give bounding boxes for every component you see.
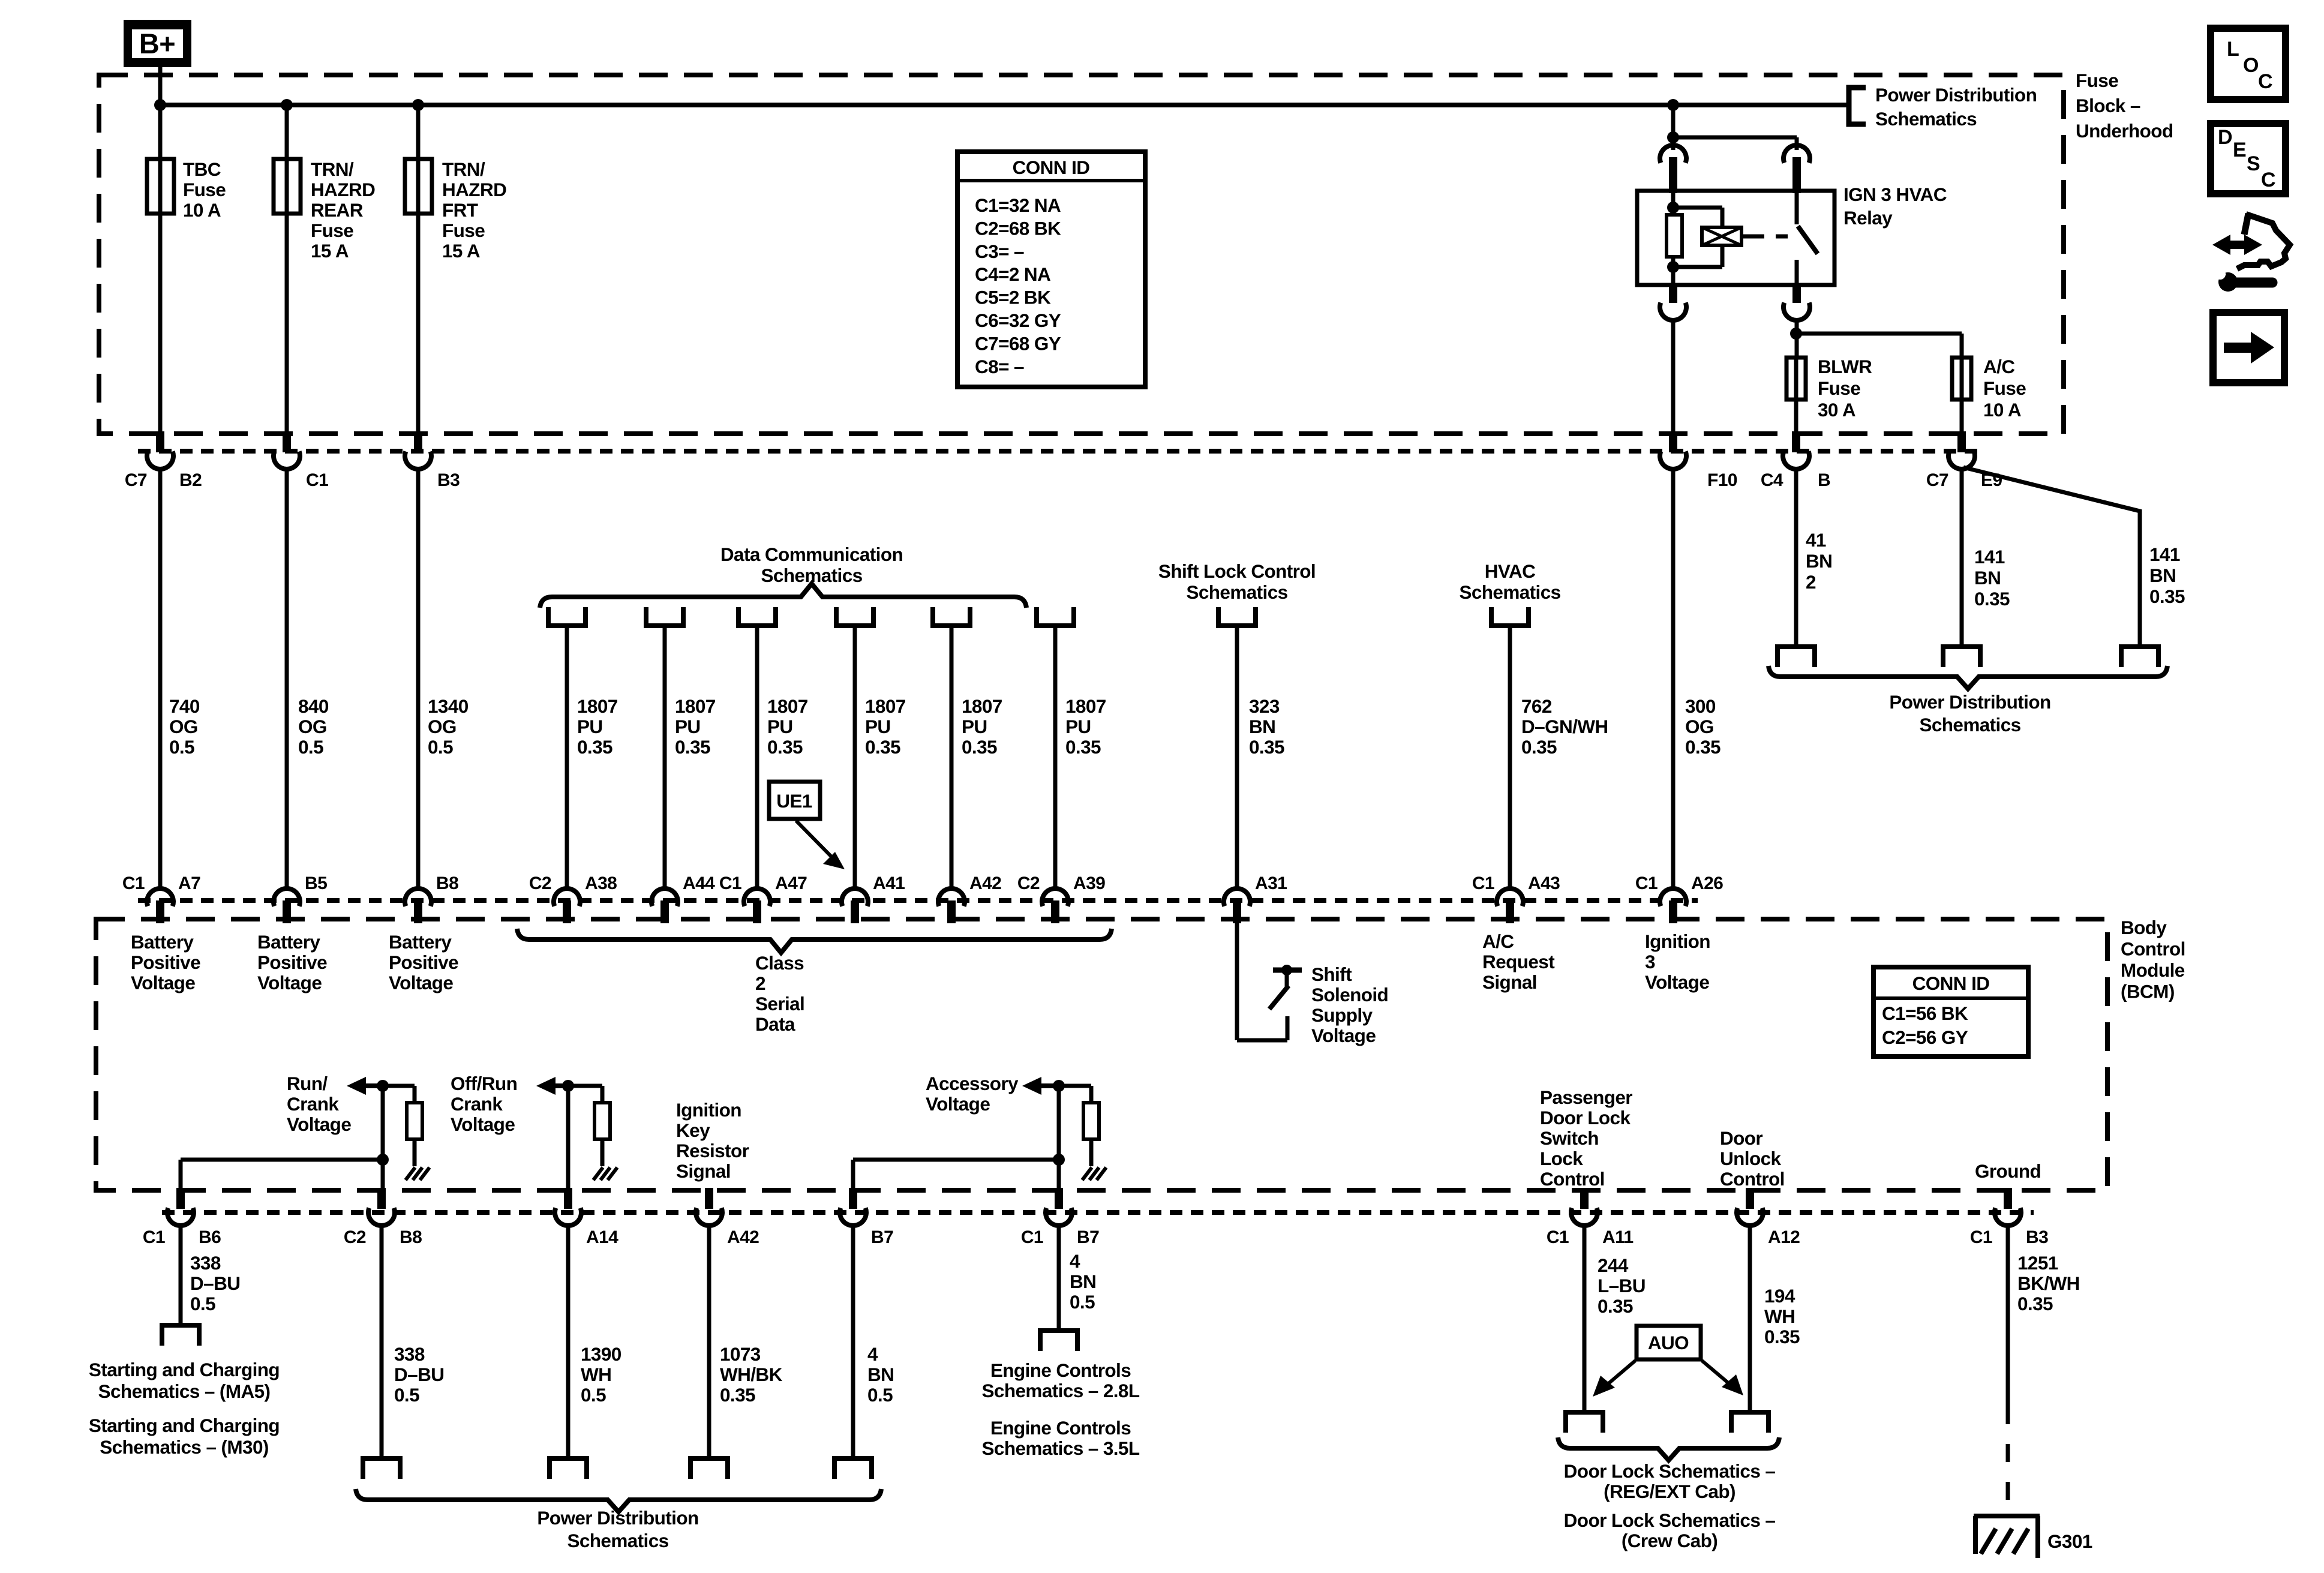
label 194 WH 0.35 [1764,1285,1800,1347]
svg-text:Schematics: Schematics [1875,108,1977,130]
connector BCM exit A42 (1182) [696,1188,759,1247]
wire 338 D-BU B6 [179,1224,183,1325]
svg-text:194: 194 [1764,1285,1795,1307]
wire main bus B+ [160,103,1849,107]
connector BCM exit B8 (636) [344,1188,422,1247]
svg-text:10 A: 10 A [1983,399,2021,421]
svg-text:2: 2 [1806,571,1816,593]
svg-text:L: L [2227,38,2239,61]
svg-text:B7: B7 [1077,1227,1099,1247]
svg-text:141: 141 [2149,544,2180,565]
svg-text:Door Lock Schematics –: Door Lock Schematics – [1564,1509,1776,1531]
terminal data comm 2 [646,607,683,626]
svg-text:Power Distribution: Power Distribution [537,1507,698,1529]
svg-text:CONN ID: CONN ID [1013,157,1090,178]
label power distribution schematics right [1889,691,2050,736]
wire class2 serial data 6 [1053,626,1058,888]
wire TBC fuse column [158,105,163,434]
connector C7/E9 exit [1926,431,2002,490]
junction node relay feed [1667,131,1679,143]
label 1073 WH/BK 0.35 [720,1343,783,1406]
svg-text:0.35: 0.35 [675,736,710,758]
svg-text:WH/BK: WH/BK [720,1364,783,1385]
svg-text:Module: Module [2121,959,2185,981]
label TRN/HAZRD FRT fuse [442,158,506,262]
wire B+ to bus [158,67,163,105]
svg-text:BLWR: BLWR [1818,356,1872,377]
fuse AC 10A [1952,358,1971,400]
junction accessory lower [1053,1154,1065,1166]
svg-text:Control: Control [1540,1168,1605,1190]
connector BCM entry A26 [1635,873,1723,923]
label HVAC schematics [1459,560,1560,603]
label shift solenoid supply voltage [1311,963,1388,1046]
label ignition key resistor signal [676,1099,749,1182]
svg-text:338: 338 [394,1343,425,1365]
label 338 D-BU 0.5 (B6) [190,1252,240,1314]
svg-text:A41: A41 [873,873,905,893]
wire to AC fuse [1796,334,1962,358]
wire 338 D-BU B8 [380,1224,384,1458]
ground hatch off run [593,1167,617,1180]
svg-text:BN: BN [1249,716,1275,737]
svg-text:PU: PU [865,716,891,737]
ground hatch accessory [1082,1167,1106,1180]
svg-text:0.35: 0.35 [720,1384,755,1406]
connector BCM exit B6 (301) [143,1188,221,1247]
svg-text:B3: B3 [2026,1227,2048,1247]
connector BCM exit A12 (2917) [1737,1188,1800,1247]
connector BCM exit A14 (947) [555,1188,618,1247]
wire class2 serial data 1 [565,626,569,888]
connector BCM entry A31 [1224,873,1287,923]
wire 1073 WH/BK A42 [707,1224,711,1458]
solenoid element relay [1702,227,1742,245]
fuse TBC 10A [147,159,174,214]
label 1807 PU 0.35 (5) [962,695,1002,758]
svg-text:41: 41 [1806,529,1826,551]
brace class 2 serial data [517,929,1112,953]
label 1807 PU 0.35 (3) [767,695,808,758]
svg-text:15 A: 15 A [442,240,480,262]
label 840 OG 0.5 [298,695,329,758]
wire 141 BN C7 [1960,467,1964,647]
connector row fuse block [138,449,1986,454]
svg-text:C2: C2 [529,873,551,893]
svg-text:C7: C7 [125,470,147,490]
label 323 BN 0.35 [1249,695,1284,758]
svg-text:B: B [1818,470,1830,490]
wire relay coil feed [1671,137,1676,150]
battery feed symbol B+ [124,20,191,67]
wire relay coil bottom [1671,257,1676,285]
fuse TRN/HAZRD FRT 15A [405,159,432,214]
svg-text:Fuse: Fuse [2076,70,2118,91]
svg-text:B2: B2 [179,470,202,490]
wire 762 D-GN/WH [1508,626,1512,888]
svg-text:2: 2 [755,972,765,994]
svg-text:C1: C1 [1970,1227,1992,1247]
terminal data comm 5 [933,607,970,626]
svg-text:IGN 3 HVAC: IGN 3 HVAC [1843,184,1947,205]
svg-text:Lock: Lock [1540,1148,1583,1169]
wire run crank node [383,1086,415,1190]
svg-text:840: 840 [298,695,329,717]
svg-text:OG: OG [1685,716,1714,737]
label data communication schematics [720,544,903,586]
svg-text:3: 3 [1645,951,1655,972]
svg-text:C8= –: C8= – [975,356,1024,377]
connector BCM entry A39 [1017,873,1105,923]
brace door lock [1558,1437,1779,1460]
svg-text:A43: A43 [1528,873,1560,893]
svg-text:A31: A31 [1255,873,1287,893]
svg-text:Schematics – (M30): Schematics – (M30) [100,1436,269,1458]
callout UE1 arrow [796,821,845,869]
terminal shift lock [1218,607,1256,626]
svg-text:141: 141 [1974,546,2005,568]
svg-text:1807: 1807 [962,695,1002,717]
connector relay pin top right [1783,145,1810,193]
svg-text:C1: C1 [719,873,741,893]
svg-text:C2=56 GY: C2=56 GY [1882,1026,1968,1048]
svg-text:0.35: 0.35 [1065,736,1101,758]
wire relay coil top [1671,191,1676,215]
svg-text:C3= –: C3= – [975,241,1024,262]
svg-text:C: C [2261,169,2275,191]
wire 194 WH A12 [1748,1224,1752,1412]
svg-text:D: D [2218,126,2232,149]
svg-text:B6: B6 [199,1227,221,1247]
svg-text:1390: 1390 [581,1343,621,1365]
svg-text:Voltage: Voltage [451,1113,515,1135]
connector F10 exit [1660,431,1737,490]
svg-text:B8: B8 [436,873,458,893]
svg-text:A44: A44 [683,873,715,893]
junction node bus at TRN rear [281,99,293,111]
svg-text:Fuse: Fuse [442,220,485,241]
icon LOC box [2211,28,2286,100]
svg-text:0.35: 0.35 [2017,1293,2053,1314]
svg-text:A/C: A/C [1482,930,1514,952]
svg-text:Schematics – (MA5): Schematics – (MA5) [98,1380,271,1402]
label battery positive voltage 3 [389,931,458,993]
svg-text:FRT: FRT [442,199,478,221]
svg-text:Fuse: Fuse [311,220,353,241]
connector C4/B exit [1761,431,1830,490]
svg-text:Data: Data [755,1013,795,1035]
svg-text:C4=2 NA: C4=2 NA [975,263,1050,285]
ground hatch run crank [406,1167,430,1180]
svg-text:Voltage: Voltage [257,972,322,993]
wire 244 L-BU A11 [1583,1224,1587,1412]
arrow off run crank [536,1077,574,1095]
svg-text:C6=32 GY: C6=32 GY [975,310,1061,331]
label 300 OG 0.35 [1685,695,1721,758]
svg-text:0.35: 0.35 [767,736,803,758]
svg-text:BN: BN [1070,1271,1096,1292]
svg-text:0.35: 0.35 [1521,736,1557,758]
svg-text:PU: PU [767,716,793,737]
svg-text:C1: C1 [1635,873,1658,893]
connector BCM entry B8 [405,873,458,923]
terminal A14 power dist [550,1458,587,1479]
svg-text:Shift Lock Control: Shift Lock Control [1158,560,1316,582]
connector BCM entry A7 [122,873,200,923]
svg-text:0.35: 0.35 [2149,586,2185,607]
svg-text:Positive: Positive [131,951,200,973]
connector row BCM top [138,898,1698,903]
svg-text:300: 300 [1685,695,1716,717]
wire accessory to B7 [853,1160,1059,1190]
connector BCM entry B5 [274,873,327,923]
terminal data comm 3 [738,607,776,626]
svg-text:0.5: 0.5 [394,1384,419,1406]
terminal door lock A11 [1566,1412,1603,1433]
svg-text:Power Distribution: Power Distribution [1889,691,2050,713]
svg-text:D–BU: D–BU [394,1364,444,1385]
svg-text:15 A: 15 A [311,240,349,262]
svg-text:A/C: A/C [1983,356,2014,377]
svg-text:Door Lock: Door Lock [1540,1107,1631,1128]
svg-text:Accessory: Accessory [926,1073,1019,1094]
svg-text:Body: Body [2121,917,2167,938]
svg-text:HVAC: HVAC [1485,560,1536,582]
wire AC fuse to border [1960,400,1964,434]
svg-text:AUO: AUO [1648,1332,1689,1353]
icon arrow box [2213,313,2284,383]
svg-text:F10: F10 [1707,470,1737,490]
svg-text:Crank: Crank [451,1093,503,1115]
label 141 BN 0.35 right [2149,544,2185,607]
terminal A42 power dist [690,1458,728,1479]
svg-text:Passenger: Passenger [1540,1086,1632,1108]
svg-text:Resistor: Resistor [676,1140,749,1161]
label off run crank voltage [451,1073,517,1135]
svg-text:TRN/: TRN/ [311,158,354,180]
svg-text:0.5: 0.5 [190,1293,215,1314]
svg-text:Voltage: Voltage [1645,971,1709,993]
terminal B8 power dist [363,1458,400,1479]
svg-text:S: S [2247,152,2260,175]
svg-text:Ignition: Ignition [676,1099,741,1121]
svg-text:C5=2 BK: C5=2 BK [975,287,1051,308]
svg-text:1073: 1073 [720,1343,761,1365]
svg-text:0.35: 0.35 [577,736,612,758]
svg-text:Solenoid: Solenoid [1311,984,1388,1005]
svg-text:0.5: 0.5 [298,736,323,758]
svg-text:C: C [2258,70,2272,93]
svg-text:A12: A12 [1768,1227,1800,1247]
junction node bus at TBC [154,99,166,111]
label 244 L-BU 0.35 [1598,1254,1646,1317]
svg-text:0.5: 0.5 [1070,1291,1095,1313]
relay IGN 3 HVAC box [1637,191,1834,285]
svg-text:Ground: Ground [1975,1160,2041,1182]
svg-text:WH: WH [581,1364,611,1385]
svg-text:(REG/EXT Cab): (REG/EXT Cab) [1604,1481,1736,1502]
svg-text:Schematics – 2.8L: Schematics – 2.8L [982,1380,1140,1401]
svg-text:Fuse: Fuse [183,179,226,200]
label run crank voltage [287,1073,351,1135]
connector BCM entry A43 [1472,873,1560,923]
label AC fuse [1983,356,2026,421]
connector BCM entry A42 [938,873,1001,923]
wire resistor run crank gnd [413,1139,417,1166]
wire 323 BN [1235,626,1239,888]
junction run crank lower [377,1154,389,1166]
callout AUO arrow right [1702,1361,1743,1395]
svg-text:PU: PU [675,716,701,737]
svg-text:Starting and Charging: Starting and Charging [89,1415,280,1436]
svg-text:L–BU: L–BU [1598,1275,1646,1296]
callout AUO arrow left [1593,1361,1635,1397]
svg-text:A26: A26 [1691,873,1723,893]
brace power distribution right [1768,666,2167,689]
wire resistor off run gnd [600,1139,605,1166]
resistor run crank [407,1103,422,1139]
wire 4 BN B7 [851,1224,855,1458]
label IGN 3 HVAC relay [1843,184,1947,229]
connector relay pin bottom right [1783,285,1810,320]
junction node bus at relay [1667,99,1679,111]
label 141 BN 0.35 left [1974,546,2010,610]
svg-text:CONN ID: CONN ID [1912,972,1990,994]
svg-text:Voltage: Voltage [1311,1025,1376,1046]
svg-text:C1=32 NA: C1=32 NA [975,194,1061,216]
svg-text:0.5: 0.5 [169,736,194,758]
fuse block - underhood box (dashed) [99,75,2064,434]
svg-text:REAR: REAR [311,199,364,221]
svg-text:D–BU: D–BU [190,1272,240,1294]
label engine controls 2.8 [982,1359,1140,1401]
label ignition 3 voltage [1645,930,1710,993]
svg-text:OG: OG [298,716,327,737]
label shift lock control schematics [1158,560,1316,603]
label power distribution schematics top [1875,84,2037,130]
svg-text:Data Communication: Data Communication [720,544,903,565]
svg-text:Schematics: Schematics [1186,581,1287,603]
connector relay pin bottom left [1660,285,1686,320]
svg-text:C2: C2 [344,1227,366,1247]
arrow accessory [1022,1077,1059,1095]
svg-text:Schematics: Schematics [1919,714,2020,736]
svg-text:Fuse: Fuse [1983,377,2026,399]
svg-text:C4: C4 [1761,470,1783,490]
wire BLWR fuse to border [1794,400,1798,434]
connector relay pin top left [1660,145,1686,193]
junction node coil top [1667,202,1679,214]
fuse BLWR 30A [1786,358,1806,400]
label TBC fuse [183,158,226,221]
wire 1251 BK/WH dashed [2006,1406,2010,1516]
brace data communication [540,584,1026,608]
terminal power dist B [1777,647,1815,667]
label class 2 serial data [755,952,804,1035]
svg-text:(Crew Cab): (Crew Cab) [1622,1530,1718,1551]
svg-text:C1: C1 [1547,1227,1569,1247]
svg-text:B3: B3 [437,470,460,490]
svg-text:Shift: Shift [1311,963,1352,985]
svg-text:BN: BN [1806,550,1832,572]
connector BCM exit B3 (3347) [1970,1188,2048,1247]
svg-text:A42: A42 [727,1227,759,1247]
svg-text:1251: 1251 [2017,1252,2058,1274]
label 1807 PU 0.35 (2) [675,695,716,758]
svg-text:Voltage: Voltage [131,972,195,993]
svg-text:Door: Door [1720,1127,1762,1149]
wire 740 OG [158,467,163,888]
svg-text:0.5: 0.5 [867,1384,893,1406]
svg-text:Voltage: Voltage [287,1113,351,1135]
svg-text:A42: A42 [969,873,1001,893]
label ground [1975,1160,2041,1182]
svg-text:0.35: 0.35 [1685,736,1721,758]
svg-text:1807: 1807 [577,695,618,717]
ground G301 [1974,1516,2040,1558]
label 4 BN 0.5 (engine) [1070,1250,1096,1313]
wire class2 serial data 2 [663,626,667,888]
connector BCM entry A38 [529,873,617,923]
svg-text:G301: G301 [2047,1530,2092,1552]
terminal engine controls [1040,1331,1077,1351]
svg-text:10 A: 10 A [183,199,221,221]
wire resistor accessory gnd [1089,1139,1094,1166]
svg-text:762: 762 [1521,695,1552,717]
connector BCM exit B7 (1422) [840,1188,893,1247]
svg-text:Positive: Positive [257,951,327,973]
svg-text:Schematics: Schematics [567,1530,668,1551]
label body control module [2121,917,2185,1002]
svg-text:Key: Key [676,1119,710,1141]
wire 840 OG [285,467,289,888]
svg-text:Crank: Crank [287,1093,339,1115]
svg-text:Door Lock Schematics –: Door Lock Schematics – [1564,1460,1776,1482]
svg-text:0.35: 0.35 [962,736,997,758]
svg-text:D–GN/WH: D–GN/WH [1521,716,1608,737]
terminal data comm 6 [1037,607,1074,626]
svg-text:B8: B8 [400,1227,422,1247]
junction run crank [377,1080,389,1092]
svg-text:0.5: 0.5 [428,736,453,758]
label 41 BN 2 [1806,529,1832,593]
svg-text:A11: A11 [1602,1227,1634,1247]
svg-text:0.5: 0.5 [581,1384,606,1406]
svg-text:C1: C1 [1021,1227,1043,1247]
svg-text:C7: C7 [1926,470,1948,490]
wire 300 OG ignition 3 [1671,467,1676,888]
svg-text:Battery: Battery [131,931,194,953]
wire off run node [568,1086,602,1190]
table CONN ID BCM [1873,967,2028,1056]
svg-text:B7: B7 [871,1227,893,1247]
wire 1340 OG [416,467,421,888]
wire run crank to B6 [181,1160,383,1190]
svg-text:Off/Run: Off/Run [451,1073,517,1094]
svg-text:A39: A39 [1073,873,1105,893]
table CONN ID fuse block [957,152,1145,387]
svg-text:C1: C1 [306,470,328,490]
svg-text:Signal: Signal [1482,971,1537,993]
svg-text:Unlock: Unlock [1720,1148,1782,1169]
brace power distribution bottom [356,1489,881,1512]
svg-text:B5: B5 [305,873,327,893]
svg-text:OG: OG [169,716,198,737]
label battery positive voltage 1 [131,931,200,993]
connector BCM entry A41 [842,873,905,923]
label door unlock control [1720,1127,1785,1190]
wire actuator dashed link [1752,235,1794,239]
